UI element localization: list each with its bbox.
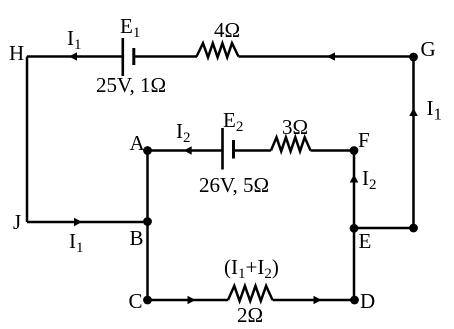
resistor 3ohm zigzag (271, 137, 311, 151)
svg-text:A: A (130, 131, 146, 155)
node G (409, 53, 418, 62)
svg-text:C: C (129, 289, 143, 313)
wire bottom: node C to resistor 2ohm (148, 299, 229, 302)
svg-text:3Ω: 3Ω (282, 115, 308, 139)
wire left: H to J (26, 57, 29, 223)
node A (143, 146, 152, 155)
wire bottom-left: J to node B (27, 221, 148, 224)
battery E1 short plate (132, 48, 135, 65)
arrow top-right pointing left (327, 52, 335, 61)
node F (350, 146, 359, 155)
svg-text:H: H (9, 41, 24, 65)
wire right: node G down to junction (412, 57, 415, 229)
svg-text:(I1+I2): (I1+I2) (224, 255, 279, 282)
arrow right wire pointing up (409, 108, 418, 116)
svg-text:G: G (421, 37, 436, 61)
arrow F wire pointing up (350, 175, 359, 183)
svg-text:I1: I1 (69, 229, 84, 256)
svg-text:F: F (358, 128, 370, 152)
battery E1 long plate (122, 38, 125, 76)
wire: node A to battery E2 (148, 149, 223, 152)
wire: resistor 3ohm to node F (311, 149, 355, 152)
svg-text:E: E (359, 229, 372, 253)
resistor 2ohm zigzag (228, 286, 273, 301)
svg-text:J: J (13, 210, 21, 234)
svg-text:2Ω: 2Ω (237, 303, 263, 327)
node D (350, 296, 359, 305)
wire: node B up to node A (146, 151, 149, 223)
battery E2 long plate (221, 128, 224, 170)
svg-text:E2: E2 (223, 108, 243, 135)
svg-text:E1: E1 (120, 14, 140, 41)
node E (350, 224, 359, 233)
wire: node E down to node D (353, 228, 356, 300)
svg-text:I1: I1 (427, 96, 443, 124)
wire top: resistor 4ohm to node G (239, 55, 414, 58)
wire: node B down to node C (146, 222, 149, 300)
wire: node F down to node E (353, 151, 356, 229)
svg-text:D: D (360, 289, 375, 313)
svg-text:I2: I2 (362, 166, 377, 193)
svg-text:I2: I2 (176, 119, 191, 146)
arrow I1 top-left pointing left (69, 52, 77, 61)
svg-text:26V, 5Ω: 26V, 5Ω (199, 173, 269, 197)
arrow middle wire pointing left toward A (184, 146, 192, 155)
battery E2 short plate (232, 140, 235, 159)
node B (143, 217, 152, 226)
arrow J-to-B pointing right (74, 218, 82, 227)
svg-text:B: B (130, 226, 144, 250)
svg-text:I1: I1 (67, 26, 82, 53)
node C (143, 296, 152, 305)
wire: battery E2 to resistor 3ohm (234, 149, 271, 152)
svg-text:4Ω: 4Ω (214, 18, 240, 42)
svg-text:25V, 1Ω: 25V, 1Ω (96, 73, 166, 97)
wire bottom: resistor 2ohm to node D (273, 299, 355, 302)
resistor 4ohm zigzag (197, 43, 239, 57)
arrow C-to-resistor pointing right (188, 296, 196, 305)
junction right of E (409, 224, 418, 233)
wire: node E to right branch junction (354, 227, 414, 230)
wire top: battery E1 to resistor 4ohm (134, 55, 197, 58)
arrow resistor-to-D pointing right (314, 296, 322, 305)
wire top: H to battery E1 (27, 55, 122, 58)
